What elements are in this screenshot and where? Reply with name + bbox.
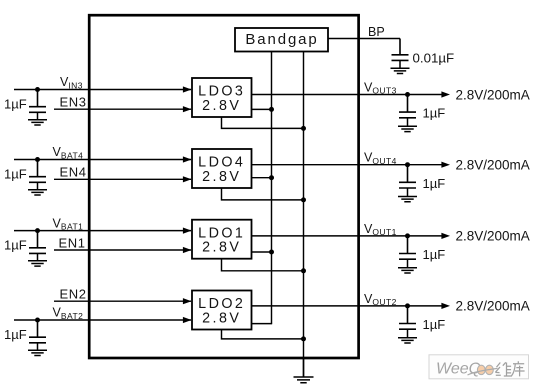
svg-text:2.8V: 2.8V: [202, 98, 241, 114]
capacitor output 1uF: [399, 95, 416, 118]
LDO regulator block LDO3 2.8V: [192, 78, 252, 117]
ground (input cap): [28, 182, 47, 195]
wire VIN3 input: [14, 89, 191, 91]
wire LDO1 feedback to reference bus: [252, 251, 273, 253]
capacitor output 1uF: [399, 236, 416, 259]
LDO regulator block LDO4 2.8V: [192, 149, 252, 188]
svg-text:2.8V/200mA: 2.8V/200mA: [456, 229, 530, 244]
LDO regulator block LDO1 2.8V: [192, 220, 252, 259]
node junction reference bus: [269, 107, 274, 112]
capacitor output 1uF: [399, 306, 416, 329]
arrow into LDO2 upper pin: [183, 298, 192, 304]
wire LDO1 ground to ground bus: [222, 259, 304, 271]
wire VOUT1 output: [252, 235, 442, 237]
node junction reference bus: [269, 250, 274, 255]
capacitor output 1uF: [399, 165, 416, 188]
svg-text:2.8V/200mA: 2.8V/200mA: [456, 87, 530, 102]
svg-text:VOUT1: VOUT1: [364, 222, 397, 237]
capacitor input 1uF: [29, 320, 46, 343]
arrow VOUT4 load: [441, 162, 450, 168]
node junction ground bus: [301, 126, 306, 131]
wire VOUT2 output: [252, 305, 442, 307]
svg-text:2.8V: 2.8V: [202, 240, 241, 256]
IC outline box U1: [89, 15, 358, 358]
svg-text:Bandgap: Bandgap: [245, 31, 318, 48]
watermark box: [429, 355, 529, 379]
wire LDO2 ground to ground bus: [222, 330, 304, 339]
node junction input cap tap: [35, 318, 40, 323]
wire ground bus (bandgap right output to GND): [303, 52, 305, 378]
ground (input cap): [28, 343, 47, 356]
wire VBAT1 input: [14, 230, 191, 232]
ground (input cap): [28, 112, 47, 125]
arrow into LDO4 upper pin: [183, 156, 192, 162]
svg-text:VIN3: VIN3: [60, 75, 83, 90]
LDO regulator block LDO2 2.8V: [192, 291, 252, 330]
svg-text:1µF: 1µF: [423, 247, 446, 262]
wire LDO4 feedback to reference bus: [252, 177, 273, 179]
svg-text:1µF: 1µF: [423, 176, 446, 191]
svg-text:VOUT3: VOUT3: [364, 81, 397, 96]
capacitor input 1uF: [29, 90, 46, 113]
ground (IC GND pin): [294, 358, 314, 383]
wire EN4 input: [54, 178, 191, 180]
svg-text:VOUT2: VOUT2: [364, 292, 397, 307]
arrow into LDO1 upper pin: [183, 228, 192, 234]
svg-text:2.8V/200mA: 2.8V/200mA: [456, 158, 530, 173]
wire EN2 input: [54, 300, 191, 302]
svg-text:BP: BP: [368, 25, 385, 39]
node junction reference bus: [269, 175, 274, 180]
node junction VOUT4 cap tap: [405, 162, 410, 167]
wire VBAT2 input: [14, 319, 191, 321]
svg-text:VOUT4: VOUT4: [364, 151, 397, 166]
ground (C1): [391, 60, 410, 73]
watermark Q tail stroke: [468, 368, 498, 375]
svg-text:1µF: 1µF: [4, 327, 27, 342]
wire EN3 input: [54, 108, 191, 110]
watermark oo glyphs: [477, 365, 493, 374]
arrow into LDO3 upper pin: [183, 86, 192, 92]
wire VBAT4 input: [14, 159, 191, 161]
svg-text:WeeQ: WeeQ: [436, 361, 481, 378]
wire LDO4 ground to ground bus: [222, 188, 304, 200]
wire LDO3 ground to ground bus: [222, 117, 304, 128]
watermark CJK wei glyph: [495, 362, 512, 376]
arrow into LDO3 lower pin: [183, 106, 192, 112]
svg-text:VBAT1: VBAT1: [53, 216, 84, 231]
node junction input cap tap: [35, 157, 40, 162]
node junction ground bus: [301, 268, 306, 273]
ground (output cap): [398, 259, 417, 273]
arrow into LDO2 lower pin: [183, 317, 192, 323]
wire EN1 input: [54, 249, 191, 251]
capacitor input 1uF: [29, 160, 46, 183]
ground (input cap): [28, 253, 47, 266]
arrow VOUT2 load: [441, 303, 450, 309]
wire VOUT4 output: [252, 164, 442, 166]
node junction VOUT3 cap tap: [405, 92, 410, 97]
node junction ground bus: [301, 197, 306, 202]
capacitor input 1uF: [29, 231, 46, 254]
svg-text:1µF: 1µF: [423, 317, 446, 332]
ground (output cap): [398, 118, 417, 132]
arrow into LDO4 lower pin: [183, 176, 192, 182]
svg-text:2.8V: 2.8V: [202, 169, 241, 185]
node junction input cap tap: [35, 87, 40, 92]
ground (output cap): [398, 188, 417, 202]
wire reference bus (bandgap left output): [271, 52, 273, 324]
svg-text:1µF: 1µF: [4, 96, 27, 111]
svg-text:EN1: EN1: [59, 235, 86, 250]
wire LDO2 feedback to reference bus: [252, 323, 273, 325]
bandgap block: [235, 28, 328, 52]
node junction input cap tap: [35, 228, 40, 233]
ground (output cap): [398, 329, 417, 343]
wire VOUT3 output: [252, 94, 442, 96]
watermark CJK ku glyph: [511, 361, 524, 376]
wire LDO3 feedback to reference bus: [252, 108, 273, 110]
svg-text:EN3: EN3: [60, 95, 87, 110]
arrow VOUT3 load: [441, 91, 450, 97]
svg-text:EN2: EN2: [60, 287, 87, 302]
node junction ground bus: [301, 336, 306, 341]
svg-text:EN4: EN4: [60, 165, 87, 180]
node junction VOUT1 cap tap: [405, 233, 410, 238]
svg-text:1µF: 1µF: [423, 106, 446, 121]
svg-text:VBAT4: VBAT4: [53, 145, 84, 160]
svg-text:2.8V: 2.8V: [202, 310, 241, 326]
arrow VOUT1 load: [441, 233, 450, 239]
svg-text:1µF: 1µF: [4, 166, 27, 181]
svg-text:1µF: 1µF: [4, 237, 27, 252]
svg-text:2.8V/200mA: 2.8V/200mA: [456, 299, 530, 314]
capacitor C1 0.01uF: [392, 39, 409, 61]
svg-text:0.01µF: 0.01µF: [413, 50, 455, 65]
wire BP (bandgap bypass): [328, 38, 400, 40]
node junction VOUT2 cap tap: [405, 303, 410, 308]
svg-text:VBAT2: VBAT2: [53, 306, 84, 321]
arrow into LDO1 lower pin: [183, 247, 192, 253]
